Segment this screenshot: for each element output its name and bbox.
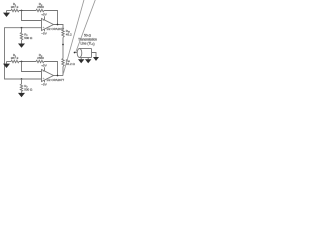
node B <box>21 27 23 29</box>
wire <box>62 38 64 59</box>
ground <box>18 93 25 97</box>
svg-text:−5V: −5V <box>41 31 46 35</box>
resistor R3 500 <box>20 32 33 40</box>
wire (diagonal to transformer, left) <box>63 0 84 74</box>
resistor R6 367.3 <box>11 53 19 63</box>
-5V supply <box>41 29 46 35</box>
transmission line TL1 label <box>78 34 97 47</box>
svg-text:2550: 2550 <box>37 56 44 60</box>
svg-text:367.3: 367.3 <box>11 56 19 60</box>
op-amp U1b <box>42 70 54 82</box>
ground <box>3 11 10 18</box>
wire (output bottom) <box>54 75 64 77</box>
wire <box>21 91 23 93</box>
+5V supply <box>41 64 46 71</box>
ground <box>3 62 10 69</box>
wire (right lead) <box>92 53 97 58</box>
node D <box>62 44 64 46</box>
resistor R8 500 <box>20 84 33 92</box>
svg-text:+5V: +5V <box>41 13 46 17</box>
resistor R5 45.2 (matching bottom) <box>62 59 76 67</box>
svg-text:−5V: −5V <box>41 82 46 86</box>
wire (output top) <box>54 25 64 30</box>
wire (inverting input) <box>22 11 42 21</box>
wire <box>21 40 23 44</box>
svg-text:Transmission: Transmission <box>78 38 97 42</box>
node E <box>21 61 23 63</box>
wire (non-inverting input rail) <box>5 28 42 79</box>
wire <box>19 10 36 12</box>
svg-text:500 Ω: 500 Ω <box>24 36 33 40</box>
ground <box>85 59 91 63</box>
svg-text:1/2 OPA2677: 1/2 OPA2677 <box>46 78 64 82</box>
svg-text:500 Ω: 500 Ω <box>24 88 33 92</box>
svg-text:Line (TL1): Line (TL1) <box>80 42 94 47</box>
svg-text:45.2: 45.2 <box>66 32 72 36</box>
node G <box>57 75 59 77</box>
wire <box>62 67 64 76</box>
wire (inverting input bottom) <box>22 62 42 72</box>
transmission line TL1 <box>74 49 92 58</box>
svg-text:50-Ω: 50-Ω <box>84 34 92 38</box>
svg-text:367.3: 367.3 <box>11 5 19 9</box>
wire <box>21 79 23 84</box>
resistor R1 367.3 <box>11 2 19 12</box>
ground <box>93 57 99 61</box>
+5V supply <box>41 13 46 20</box>
node F <box>21 78 23 80</box>
ground <box>78 59 84 63</box>
wire <box>80 58 82 60</box>
node C <box>57 24 59 26</box>
node A (inverting node, top) <box>21 10 23 12</box>
svg-text:45.2 Ω: 45.2 Ω <box>66 62 76 66</box>
op-amp U1a <box>42 19 54 31</box>
ground <box>18 44 25 48</box>
wire <box>7 10 12 12</box>
resistor R2 2550 (feedback top) <box>36 2 44 12</box>
wire <box>87 58 89 60</box>
wire <box>19 61 36 63</box>
-5V supply <box>41 80 46 86</box>
wire (feedback to output) <box>44 11 58 25</box>
wire <box>21 28 23 33</box>
resistor R7 2550 (feedback bottom) <box>36 53 44 63</box>
svg-text:+5V: +5V <box>41 64 46 68</box>
svg-text:2550: 2550 <box>37 5 44 9</box>
wire (diagonal to transformer, right) <box>76 0 96 52</box>
resistor R4 45.2 (matching top) <box>62 29 72 38</box>
wire <box>7 61 12 63</box>
wire (feedback to output bottom) <box>44 62 58 76</box>
